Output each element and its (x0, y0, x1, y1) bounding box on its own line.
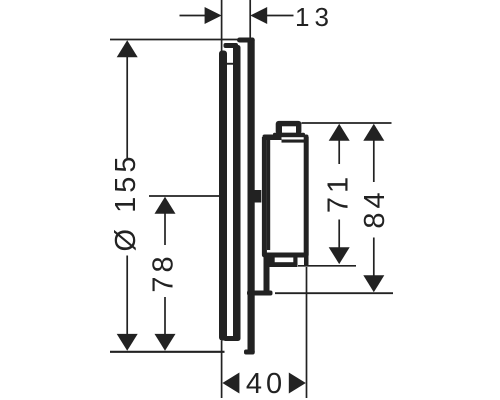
dimension 84 down arrow (363, 275, 384, 292)
collar right wall stub (304, 255, 309, 267)
plate back profile bar A (219, 51, 227, 341)
dimension 13 left tail (180, 15, 206, 17)
wire extension line 71 bottom horizontal (298, 265, 356, 267)
wire extension line 40 left vertical (221, 341, 223, 399)
wire extension line plate top horizontal (110, 39, 240, 41)
dimension diameter155 lower line (126, 256, 128, 337)
dimension 13 right arrow (250, 7, 267, 24)
handle cap button window (282, 126, 296, 133)
handle body top edge band (263, 135, 309, 141)
dimension diameter155 upper line (126, 56, 128, 158)
svg-text:40: 40 (246, 368, 286, 400)
wire extension line cap top horizontal (302, 122, 392, 124)
svg-text:71: 71 (322, 173, 354, 213)
plate middle profile bar B (233, 45, 241, 341)
handle body left wall inner thickening (267, 138, 270, 250)
wire extension line center 78 horizontal (149, 195, 222, 197)
handle cap flange (273, 133, 305, 138)
dimension diameter155 down arrow (117, 334, 138, 351)
plate front profile bar F (248, 38, 255, 355)
dimension 71 upper line (338, 139, 340, 164)
dimension 78 upper line (164, 213, 166, 245)
dimension 13 right tail (267, 15, 294, 17)
dimension 71 down arrow (329, 247, 350, 264)
svg-text:Ø 155: Ø 155 (110, 153, 142, 252)
dimension 78 lower line (164, 297, 166, 336)
dimension 84 upper line (373, 139, 375, 182)
wire extension line plate bottom horizontal (110, 351, 225, 353)
plate top shelf (224, 43, 239, 48)
dimension 78 up arrow (155, 197, 176, 214)
handle body walls outline (264, 137, 306, 255)
plate front top edge (237, 38, 255, 43)
handle cap flange white sliver (282, 137, 305, 139)
wire extension line 13 left vertical (221, 0, 223, 53)
dimension 40 right arrow (289, 373, 306, 394)
wire extension line 40 right vertical (306, 267, 308, 398)
plate front bottom foot (244, 350, 255, 355)
plate bottom shelf (224, 336, 239, 341)
svg-text:13: 13 (295, 2, 334, 32)
spindle connector block (252, 190, 262, 203)
dimension 13 left arrow (205, 7, 222, 24)
dimension diameter155 up arrow (117, 40, 138, 57)
collar below handle (269, 258, 298, 268)
dimension 71 lower line (338, 220, 340, 249)
dimension 84 up arrow (363, 124, 384, 141)
dimension 78 down arrow (155, 334, 176, 351)
dimension 40 left arrow (222, 373, 239, 394)
handle cap button (276, 121, 302, 134)
svg-text:78: 78 (148, 252, 180, 292)
wire extension line 84 bottom horizontal (275, 292, 393, 294)
collar white window (275, 258, 294, 263)
svg-text:84: 84 (359, 188, 391, 228)
handle body top inner bar (282, 140, 305, 143)
dimension 84 lower line (373, 238, 375, 277)
plate inner seam tick (227, 63, 233, 65)
dimension 71 up arrow (329, 124, 350, 141)
rear housing bottom bar (247, 291, 273, 296)
rear housing wall (264, 255, 270, 296)
wire extension line 13 right vertical (249, 0, 251, 40)
